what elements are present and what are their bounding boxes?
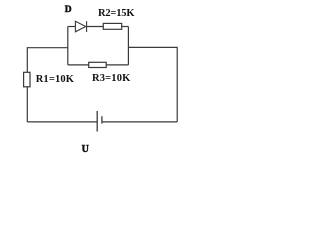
svg-text:D: D xyxy=(65,5,72,15)
svg-text:R3=10K: R3=10K xyxy=(92,73,131,84)
wire: R2 to right node of parallel section xyxy=(122,26,129,28)
battery U short plate xyxy=(101,116,103,123)
wire top-right: parallel section to right rail xyxy=(128,47,177,122)
wire: bottom rail left to battery xyxy=(27,121,97,123)
wire: anode lead of diode xyxy=(68,26,76,28)
node B: right vertical of parallel section xyxy=(127,27,129,65)
wire top-left: left node to parallel section xyxy=(27,48,68,73)
node A: left vertical of parallel section xyxy=(67,27,69,65)
svg-text:R2=15K: R2=15K xyxy=(98,8,135,19)
svg-text:R1=10K: R1=10K xyxy=(36,74,75,85)
resistor R2 xyxy=(103,23,121,29)
svg-text:U: U xyxy=(82,144,90,155)
wire: battery to bottom rail right xyxy=(102,121,177,123)
wire: diode cathode to R2 xyxy=(87,26,103,28)
wire: R3 branch right lead xyxy=(106,64,128,66)
resistor R1 xyxy=(24,72,30,87)
wire: R3 branch left lead xyxy=(68,64,89,66)
diode D symbol xyxy=(75,21,86,32)
wire: left vertical below R1 to bottom rail xyxy=(26,87,28,122)
battery U long plate xyxy=(96,111,98,132)
resistor R3 xyxy=(89,62,107,67)
